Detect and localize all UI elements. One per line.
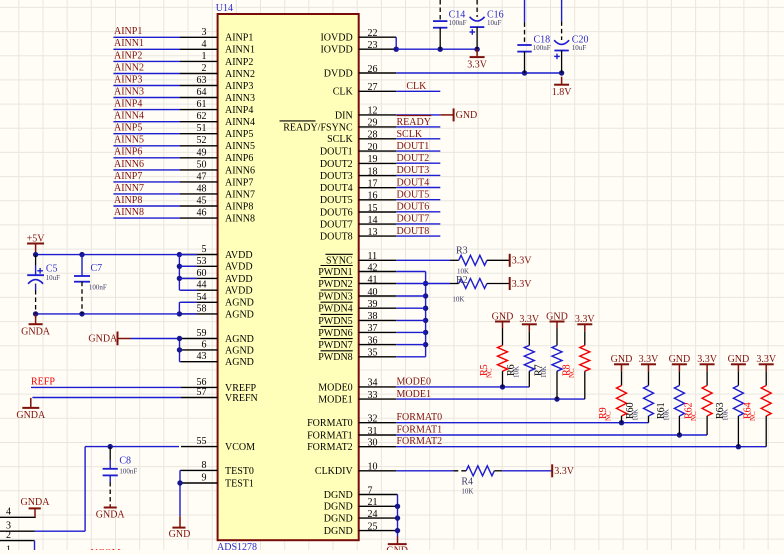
svg-text:DOUT7: DOUT7 [397,214,430,225]
wire AINP2 [113,60,180,62]
capacitor C7 [74,255,107,314]
svg-text:C8: C8 [119,456,131,467]
svg-text:AINP4: AINP4 [225,105,253,116]
resistor R63 [715,364,744,446]
svg-text:57: 57 [197,387,207,398]
svg-text:GNDA: GNDA [96,510,126,521]
svg-text:24: 24 [368,509,378,520]
pin 27 (CLK) [333,82,397,98]
svg-text:AINN1: AINN1 [114,38,144,49]
resistor R7 [534,322,563,400]
svg-text:64: 64 [197,87,207,98]
wire AINN2 [113,73,180,75]
pin 37 (PWDN6) [318,323,396,339]
resistor R62 [684,364,713,435]
svg-text:10K: 10K [662,409,670,421]
power 3.3V above R64 [756,354,777,365]
wire PWDN2 [396,283,425,285]
svg-text:GNDA: GNDA [21,497,51,508]
resistor R4 [453,466,502,496]
power 3.3V tick at R3 [510,254,533,267]
resistor R3 [450,246,510,276]
pin 31 (FORMAT1) [307,426,396,442]
svg-text:3.3V: 3.3V [519,314,540,325]
svg-text:AINP8: AINP8 [114,195,142,206]
wire DGND bus [395,495,400,537]
svg-text:DOUT3: DOUT3 [320,171,353,182]
svg-text:DGND: DGND [324,526,353,537]
wire AINN1 [113,48,180,50]
pin 53 (AVDD) [181,256,253,273]
wire AINN5 [113,145,180,147]
svg-text:GND: GND [611,354,633,365]
svg-text:NC: NC [568,368,576,378]
svg-text:DOUT8: DOUT8 [320,232,353,243]
svg-text:10: 10 [368,462,378,473]
svg-text:DOUT6: DOUT6 [320,207,353,218]
net label READY (overline) [397,116,432,128]
power GND under TEST bus [169,516,191,540]
wire AINP8 [113,205,180,207]
wire FORMAT1 [396,432,707,437]
pin 55 (VCOM) [181,436,255,453]
pin 35 (PWDN8) [318,348,396,364]
svg-text:21: 21 [368,497,378,508]
svg-text:7: 7 [368,485,373,496]
pin 43 (AGND) [181,351,254,368]
svg-text:10uF: 10uF [46,274,61,282]
pin 59 (AGND) [181,328,254,345]
svg-text:8: 8 [202,460,207,471]
svg-text:30: 30 [368,438,378,449]
svg-text:GNDA: GNDA [88,334,118,345]
svg-text:AVDD: AVDD [225,274,253,285]
pin 25 (DGND) [324,521,398,537]
svg-text:GNDA: GNDA [16,410,46,421]
svg-text:READY/FSYNC: READY/FSYNC [283,122,353,133]
svg-text:SCLK: SCLK [397,129,423,140]
pin 64 (AINN3) [180,87,255,104]
pin 45 (AINP8) [180,196,253,213]
resistor R64 [743,364,772,446]
svg-text:10uF: 10uF [572,44,587,52]
pin 30 (FORMAT2) [307,438,396,454]
svg-text:33: 33 [368,390,378,401]
wire PWDN4 [396,307,425,309]
svg-text:PWDN4: PWDN4 [318,304,352,315]
svg-text:10uF: 10uF [487,19,502,27]
wire R4 to 3.3V [502,470,552,472]
svg-text:DOUT1: DOUT1 [320,147,353,158]
svg-text:U14: U14 [216,3,233,14]
svg-text:AINN6: AINN6 [225,165,255,176]
svg-text:AINN7: AINN7 [225,189,255,200]
svg-text:AINP6: AINP6 [225,153,253,164]
svg-text:DOUT1: DOUT1 [397,141,430,152]
resistor R9 [598,364,627,422]
wire PWDN3 [396,295,425,297]
wire PWDN bus vertical [423,272,428,357]
svg-text:15: 15 [368,203,378,214]
svg-text:GND: GND [669,354,691,365]
svg-text:AVDD: AVDD [225,286,253,297]
wire AINN6 [113,169,180,171]
resistor R6 [506,324,535,387]
power GND above R5 [492,311,514,322]
wire DIN [396,114,440,116]
svg-text:18: 18 [368,166,378,177]
svg-text:DIN: DIN [335,110,353,121]
svg-text:TEST1: TEST1 [225,478,254,489]
wire FORMAT0 [396,420,648,425]
wire DOUT4 [396,187,440,189]
power GNDA at pin4 [21,497,51,517]
power 1.8V under C20 [552,77,573,98]
svg-text:10K: 10K [540,366,548,378]
wire AVDD bus vertical [177,255,197,291]
svg-text:3.3V: 3.3V [467,59,488,70]
svg-text:DVDD: DVDD [324,68,353,79]
wire pin2 down [34,541,36,550]
resistor R2 [450,275,510,304]
power GND above R63 [728,354,750,365]
wire AINN3 [113,97,180,99]
svg-text:29: 29 [368,118,378,129]
svg-text:AINP1: AINP1 [114,26,142,37]
pin 28 (SCLK) [327,130,396,146]
svg-text:37: 37 [368,323,378,334]
wire REFP to VREFP [31,386,181,388]
pin 12 (DIN) [335,106,396,122]
svg-text:100nF: 100nF [449,19,467,27]
pin 47 (AINP7) [180,171,253,188]
wire DOUT7 [396,223,440,225]
svg-text:DOUT2: DOUT2 [320,159,353,170]
pin 3 (connector, off-page) [0,521,35,532]
capacitor C18 [517,0,550,73]
wire PWDN8 [396,356,425,358]
svg-text:PWDN5: PWDN5 [318,316,352,327]
svg-text:1: 1 [6,545,11,551]
pin 48 (AINN7) [180,183,255,200]
svg-text:AINP7: AINP7 [225,177,253,188]
pin 51 (AINP5) [180,123,253,140]
svg-text:MODE0: MODE0 [397,376,431,387]
svg-text:AVDD: AVDD [225,250,253,261]
wire CLKDIV to R4 [396,470,453,472]
pin 11 (SYNC) [326,251,397,267]
svg-text:4: 4 [6,507,11,518]
svg-text:AINP6: AINP6 [114,147,142,158]
svg-text:AVDD: AVDD [225,262,253,273]
wire VCOM net [35,444,180,531]
power 3.3V under C16 [467,49,488,70]
svg-text:GNDA: GNDA [21,326,51,337]
svg-text:AINN1: AINN1 [225,45,255,56]
svg-text:45: 45 [197,196,207,207]
pin 29 (READY/FSYNC) [280,118,397,134]
pin 36 (PWDN7) [318,335,396,351]
svg-text:PWDN3: PWDN3 [318,291,352,302]
svg-text:AGND: AGND [225,309,254,320]
svg-text:CLKDIV: CLKDIV [315,466,354,477]
pin 10 (CLKDIV) [315,462,396,478]
svg-text:AINN3: AINN3 [225,93,255,104]
wire READY [396,126,440,128]
svg-text:12: 12 [368,106,378,117]
svg-text:R3: R3 [456,246,468,257]
power GND below DGND [386,537,408,555]
svg-text:AINN7: AINN7 [114,183,144,194]
resistor R60 [625,364,654,422]
power 3.3V above R62 [697,354,718,365]
svg-text:13: 13 [368,227,378,238]
pin 2 (connector, off-page) [0,530,35,541]
wire AINP4 [113,109,180,111]
svg-text:FORMAT2: FORMAT2 [397,436,443,447]
wire AINN8 [113,217,180,219]
svg-text:3.3V: 3.3V [639,354,660,365]
power 3.3V tick at R4 [552,464,575,477]
wire SCLK [396,138,440,140]
pin 49 (AINP6) [180,147,253,164]
power GNDA under VREFN [16,398,46,421]
svg-text:ADS1278: ADS1278 [217,542,257,550]
svg-text:5: 5 [202,244,207,255]
wire PWDN5 [396,319,425,321]
svg-text:AGND: AGND [225,298,254,309]
power GND above R9 [611,354,633,365]
svg-text:58: 58 [197,303,207,314]
pin 61 (AINP4) [180,99,253,116]
pin 63 (AINP3) [180,75,253,92]
svg-text:DOUT4: DOUT4 [320,183,353,194]
svg-text:REFP: REFP [31,376,55,387]
svg-text:100nF: 100nF [533,44,551,52]
svg-text:3.3V: 3.3V [756,354,777,365]
svg-text:NC: NC [605,411,613,421]
svg-text:R2: R2 [456,275,468,286]
wire AGND pin59 bus [131,336,183,362]
svg-text:1: 1 [202,51,207,62]
wire AINN7 [113,193,180,195]
svg-text:DGND: DGND [324,514,353,525]
wire PWDN6 [396,331,425,333]
svg-text:GND: GND [456,110,478,121]
wire MODE0 [396,384,529,389]
svg-text:AINN5: AINN5 [225,141,255,152]
svg-text:55: 55 [197,436,207,447]
svg-text:PWDN2: PWDN2 [318,279,352,290]
svg-text:AINN8: AINN8 [225,214,255,225]
svg-text:AINP8: AINP8 [225,201,253,212]
svg-text:DOUT5: DOUT5 [320,195,353,206]
svg-text:FORMAT1: FORMAT1 [397,424,443,435]
wire AGND bus vertical [177,302,197,316]
pin 50 (AINN6) [180,159,255,176]
wire AINN4 [113,121,180,123]
svg-text:35: 35 [368,348,378,359]
svg-text:GND: GND [728,354,750,365]
pin 52 (AINN5) [180,135,255,152]
svg-text:28: 28 [368,130,378,141]
svg-text:DGND: DGND [324,490,353,501]
svg-text:DOUT5: DOUT5 [397,190,430,201]
pin 2 (AINN2) [180,63,255,80]
svg-text:GND: GND [386,545,408,550]
svg-text:38: 38 [368,311,378,322]
svg-text:48: 48 [197,183,207,194]
svg-text:3.3V: 3.3V [512,279,533,290]
svg-text:49: 49 [197,147,207,158]
svg-text:AINP7: AINP7 [114,171,142,182]
pin 19 (DOUT2) [320,154,396,170]
svg-text:25: 25 [368,521,378,532]
power GND above R7 [546,311,568,322]
pin 21 (DGND) [324,497,398,513]
pin 54 (AGND) [181,292,254,309]
svg-text:AINN8: AINN8 [114,207,144,218]
pin 60 (AVDD) [181,268,253,285]
wire AINP5 [113,133,180,135]
power 3.3V above R60 [639,354,660,365]
svg-text:+5V: +5V [27,233,46,244]
svg-text:10K: 10K [632,409,640,421]
pin 57 (VREFN) [181,387,258,404]
pin 62 (AINN4) [180,111,255,128]
pin 4 (connector, off-page) [0,507,36,518]
svg-text:60: 60 [197,268,207,279]
wire DOUT8 [396,235,440,237]
svg-text:PWDN6: PWDN6 [318,328,352,339]
svg-text:VREFN: VREFN [225,393,258,404]
wire SYNC to R3 [396,259,450,261]
svg-text:CLK: CLK [406,81,427,92]
wire AINP6 [113,157,180,159]
resistor R8 [561,324,590,399]
svg-text:22: 22 [368,28,378,39]
svg-text:MODE1: MODE1 [397,389,431,400]
svg-text:AGND: AGND [225,345,254,356]
svg-text:DOUT8: DOUT8 [397,226,430,237]
wire DVDD rail to C20 [396,70,564,75]
svg-text:IOVDD: IOVDD [320,33,352,44]
power GND above R61 [669,354,691,365]
svg-text:IOVDD: IOVDD [320,45,352,56]
svg-text:11: 11 [368,251,378,262]
pin 7 (DGND) [324,485,398,501]
power 3.3V above R8 [575,314,596,325]
capacitor C8 [103,447,138,505]
svg-text:MODE0: MODE0 [318,382,352,393]
svg-text:26: 26 [368,64,378,75]
svg-text:52: 52 [197,135,207,146]
svg-text:44: 44 [197,280,207,291]
svg-text:NC: NC [749,411,757,421]
pin 20 (DOUT1) [320,142,396,158]
wire MODE1 [396,396,585,401]
svg-text:100nF: 100nF [119,468,137,476]
svg-text:GND: GND [546,311,568,322]
svg-text:63: 63 [197,75,207,86]
resistor R5 [479,322,508,387]
pin 56 (VREFP) [181,377,257,394]
svg-text:AINP3: AINP3 [225,81,253,92]
wire PWDN1 [396,271,425,273]
pin 1 (AINP2) [180,51,253,68]
wire AVDD rail [33,252,182,257]
power GNDA under C5 [21,314,51,337]
svg-text:VCOM: VCOM [225,442,255,453]
svg-text:CLK: CLK [333,87,354,98]
svg-text:R4: R4 [461,476,473,487]
power GNDA port at pin59 [88,332,130,346]
svg-text:34: 34 [368,378,378,389]
wire 3.3V rail to C16 [396,47,480,52]
svg-text:DOUT4: DOUT4 [397,177,430,188]
svg-text:19: 19 [368,154,378,165]
pin 58 (AGND) [181,303,254,320]
svg-text:54: 54 [197,292,207,303]
pin 22 (IOVDD) [320,28,396,44]
svg-text:59: 59 [197,328,207,339]
svg-text:DGND: DGND [324,502,353,513]
svg-text:46: 46 [197,208,207,219]
pin 4 (AINN1) [180,39,255,56]
svg-text:41: 41 [368,274,378,285]
svg-text:TEST0: TEST0 [225,466,254,477]
capacitor C20 (polarized) [554,0,588,73]
svg-text:FORMAT1: FORMAT1 [307,430,353,441]
svg-text:23: 23 [368,40,378,51]
wire AINP7 [113,181,180,183]
svg-text:16: 16 [368,191,378,202]
svg-text:43: 43 [197,351,207,362]
pin 17 (DOUT4) [320,179,396,195]
svg-text:NC: NC [690,411,698,421]
pin 9 (TEST1) [181,473,254,490]
svg-text:17: 17 [368,179,378,190]
wire DOUT3 [396,174,440,176]
svg-text:10K: 10K [512,366,520,378]
capacitor C14 [433,0,467,49]
wire DOUT2 [396,162,440,164]
wire DOUT6 [396,211,440,213]
wire DOUT1 [396,150,440,152]
svg-text:20: 20 [368,142,378,153]
svg-text:AGND: AGND [225,357,254,368]
svg-text:AINN3: AINN3 [114,87,144,98]
svg-text:FORMAT2: FORMAT2 [307,442,353,453]
svg-text:10K: 10K [721,409,729,421]
wire AGND rail [33,311,180,316]
svg-text:AGND: AGND [225,334,254,345]
svg-text:AINN4: AINN4 [225,117,255,128]
svg-text:C5: C5 [46,264,58,275]
svg-text:SCLK: SCLK [327,134,353,145]
pin 40 (PWDN3) [318,287,396,303]
svg-text:DOUT2: DOUT2 [397,153,430,164]
svg-text:AINP5: AINP5 [225,129,253,140]
pin 14 (DOUT7) [320,215,396,231]
capacitor C5 (polarized) [27,255,60,314]
pin 5 (AVDD) [181,244,253,261]
svg-text:READY: READY [397,117,431,128]
wire AINP3 [113,85,180,87]
svg-text:3.3V: 3.3V [554,466,575,477]
svg-text:AINN6: AINN6 [114,159,144,170]
svg-text:AINP3: AINP3 [114,74,142,85]
